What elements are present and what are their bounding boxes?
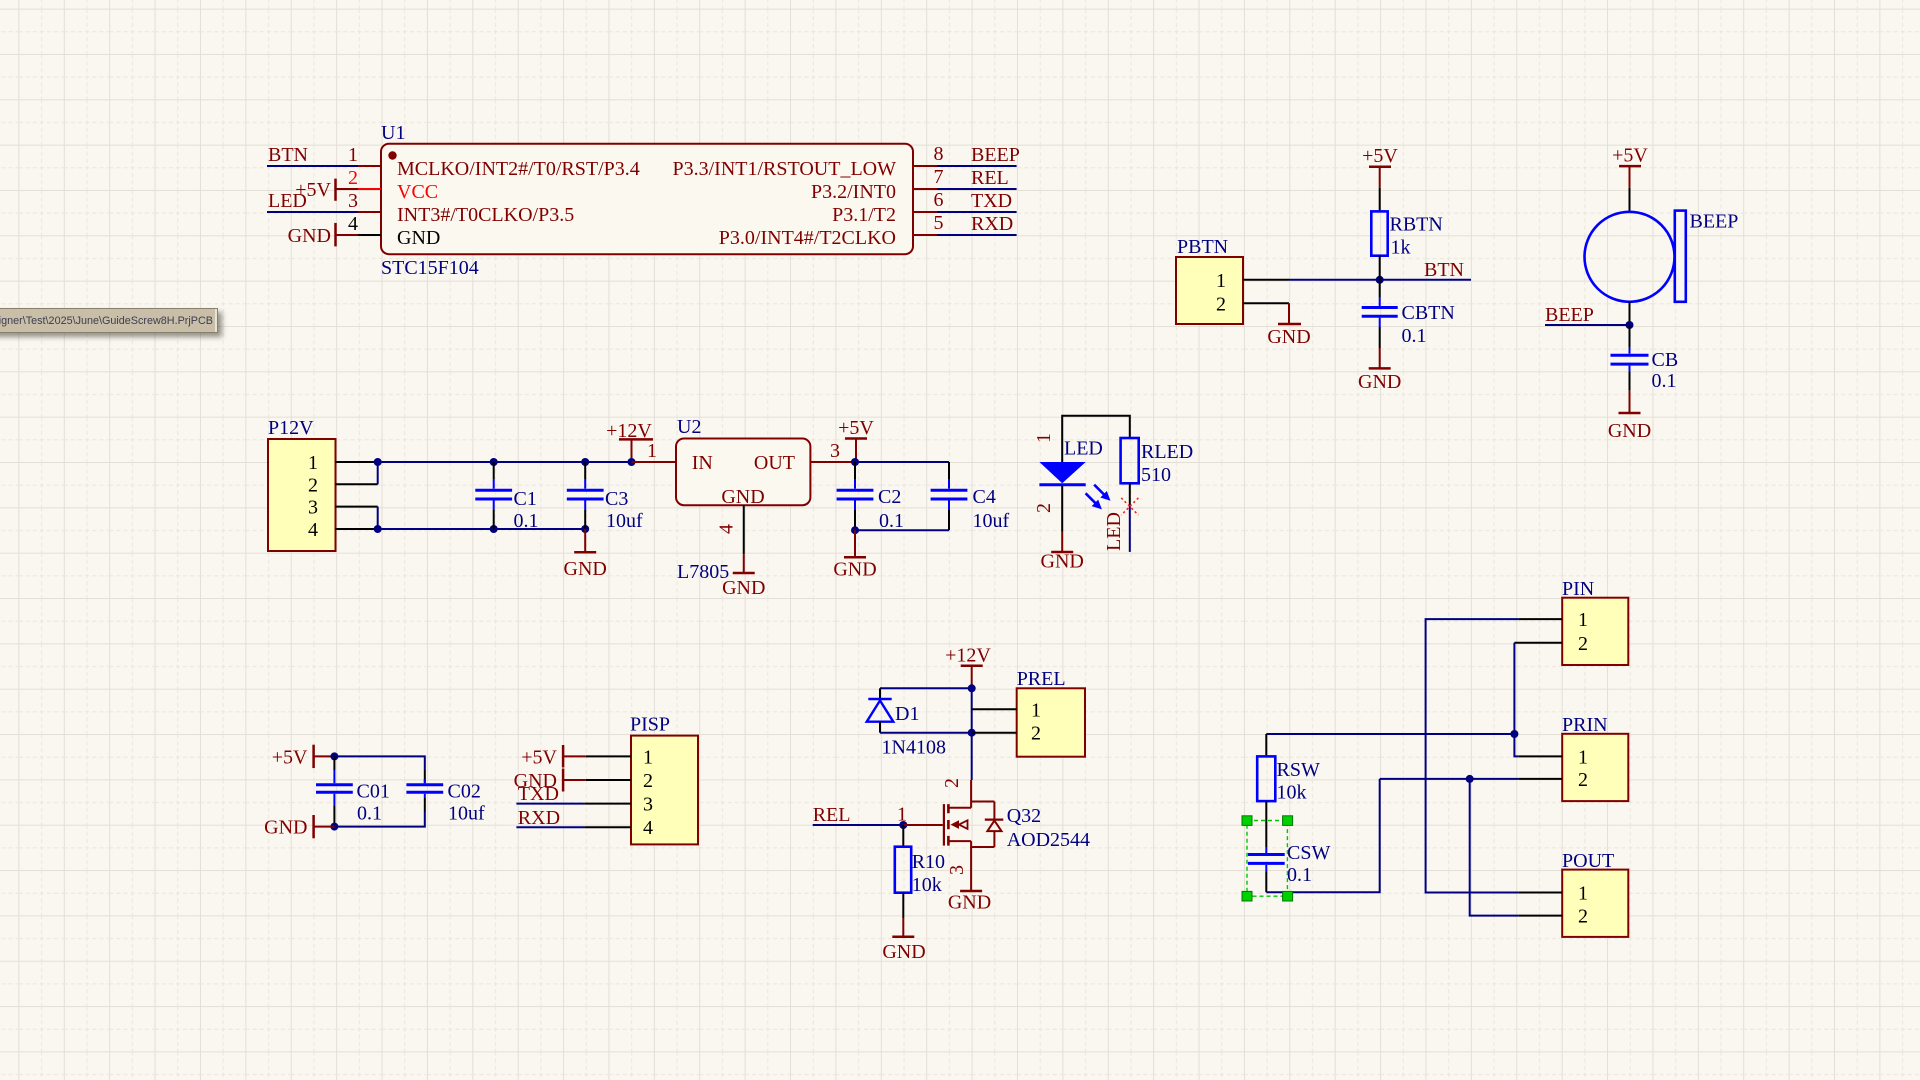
svg-text:BEEP: BEEP — [1545, 304, 1594, 326]
junction REL node — [899, 821, 907, 829]
capacitor C1 — [475, 462, 538, 532]
pin 3 U1 — [358, 211, 381, 213]
svg-text:2: 2 — [1578, 633, 1588, 655]
svg-text:1: 1 — [348, 144, 358, 166]
svg-text:PBTN: PBTN — [1177, 236, 1228, 258]
svg-text:+5V: +5V — [1612, 145, 1648, 167]
svg-text:6: 6 — [934, 189, 944, 211]
wire speaker to BEEP node — [1629, 302, 1631, 325]
wire RSW rail corner down — [1265, 734, 1267, 756]
junction BEEP node — [1626, 321, 1634, 329]
svg-text:TXD: TXD — [971, 190, 1012, 212]
svg-text:CSW: CSW — [1287, 842, 1330, 864]
pin 7 U1 — [913, 188, 937, 190]
pin 2 U1 VCC — [358, 188, 381, 190]
capacitor C2 — [837, 462, 904, 532]
svg-text:AOD2544: AOD2544 — [1007, 829, 1090, 851]
wire PIN pin2 down — [1513, 643, 1515, 734]
svg-text:RSW: RSW — [1277, 759, 1320, 781]
pin 1 POUT — [1518, 892, 1562, 894]
svg-text:1N4108: 1N4108 — [882, 737, 946, 759]
power port +5V at U1 pin2 — [295, 179, 358, 201]
capacitor C4 — [931, 462, 1010, 532]
regulator U2 L7805 — [676, 416, 810, 583]
wire +12V node down to coil node — [971, 688, 973, 732]
connector PRIN — [1562, 714, 1628, 801]
wire TXD from U1 pin6 — [937, 211, 1017, 213]
wire +5V node to C4 — [855, 461, 949, 463]
svg-text:C02: C02 — [448, 781, 481, 803]
pin 3 P12V — [336, 506, 378, 508]
pin 5 U1 — [913, 234, 937, 236]
svg-text:0.1: 0.1 — [1402, 325, 1427, 347]
svg-text:+5V: +5V — [272, 747, 308, 769]
junction C01 top — [330, 752, 338, 760]
pin 2 PBTN — [1243, 302, 1289, 304]
svg-text:510: 510 — [1141, 464, 1171, 486]
svg-text:P3.1/T2: P3.1/T2 — [832, 204, 896, 226]
svg-text:BEEP: BEEP — [971, 144, 1020, 166]
wire RSW top rail — [1266, 733, 1514, 735]
transistor Q32 AOD2544 — [944, 780, 1090, 851]
svg-text:4: 4 — [643, 817, 653, 839]
wire BEEP node to CB — [1629, 325, 1631, 347]
svg-text:2: 2 — [1031, 723, 1041, 745]
svg-text:OUT: OUT — [754, 452, 795, 474]
pin 1 PISP — [586, 755, 631, 757]
tooltip — [0, 308, 218, 333]
pin 3 U2 — [810, 461, 855, 463]
power port +12V above PREL — [945, 645, 991, 689]
speaker BEEP circle — [1585, 211, 1739, 302]
svg-text:U1: U1 — [381, 122, 405, 144]
pin 6 U1 — [913, 211, 937, 213]
svg-text:+5V: +5V — [838, 417, 874, 439]
wire ground bottom rail — [378, 528, 586, 530]
wire CSW bottom to PRIN pin2 riser — [1266, 779, 1379, 892]
wire +5V rail to C02 — [334, 756, 424, 770]
svg-text:P3.3/INT1/RSTOUT_LOW: P3.3/INT1/RSTOUT_LOW — [672, 158, 896, 180]
wire REL from U1 pin7 — [937, 188, 1017, 190]
pin 1 PIN — [1518, 618, 1562, 620]
pin 1 U1 — [358, 165, 381, 167]
svg-text:P3.2/INT0: P3.2/INT0 — [811, 181, 896, 203]
power port +5V at C01 — [272, 745, 335, 769]
svg-text:4: 4 — [308, 519, 318, 541]
pin 1 U2 — [632, 461, 677, 463]
ground port below LED — [1041, 532, 1084, 573]
junction RSW top net — [1510, 730, 1518, 738]
wire CB to ground — [1629, 372, 1631, 391]
pin 1 PREL — [972, 708, 1017, 710]
pin 2 P12V — [336, 483, 378, 485]
pin 2 PREL — [972, 732, 1017, 734]
wire BTN net — [1289, 279, 1471, 281]
wire BTN node to CBTN — [1379, 280, 1381, 297]
svg-text:CBTN: CBTN — [1402, 302, 1455, 324]
power port +12V — [606, 420, 653, 462]
connector PREL — [1017, 668, 1085, 757]
wire +5V to RBTN — [1379, 188, 1381, 212]
svg-text:2: 2 — [941, 778, 963, 788]
junction +5V node — [851, 458, 859, 466]
svg-text:D1: D1 — [895, 703, 919, 725]
svg-text:PRIN: PRIN — [1562, 714, 1608, 736]
svg-text:GND: GND — [721, 486, 764, 508]
svg-text:2: 2 — [1033, 503, 1055, 513]
svg-text:GND: GND — [1358, 371, 1401, 393]
wire coil node to Q32 drain — [971, 733, 973, 780]
svg-text:TXD: TXD — [518, 783, 559, 805]
svg-text:1: 1 — [1578, 609, 1588, 631]
svg-text:GND: GND — [722, 577, 765, 599]
resistor RSW — [1257, 756, 1320, 803]
wire LED net dangling — [1129, 506, 1131, 552]
svg-text:MCLKO/INT2#/T0/RST/P3.4: MCLKO/INT2#/T0/RST/P3.4 — [397, 158, 640, 180]
wire BEEP from U1 pin8 — [937, 165, 1017, 167]
svg-text:GND: GND — [948, 892, 991, 914]
svg-text:U2: U2 — [677, 416, 701, 438]
resistor RBTN — [1371, 211, 1443, 258]
wire LED cathode down — [1061, 486, 1063, 532]
junction BTN node — [1376, 276, 1384, 284]
connector P12V — [268, 417, 336, 551]
svg-text:RXD: RXD — [971, 213, 1013, 235]
connector POUT — [1562, 850, 1628, 937]
svg-text:GND: GND — [288, 225, 331, 247]
pin 1 PBTN — [1243, 279, 1289, 281]
pin 1 PRIN — [1518, 755, 1562, 757]
svg-text:0.1: 0.1 — [879, 510, 904, 532]
no-connect cross marker — [1121, 498, 1138, 515]
svg-text:2: 2 — [348, 167, 358, 189]
svg-text:1: 1 — [1578, 883, 1588, 905]
svg-text:3: 3 — [348, 190, 358, 212]
ground port below R10 — [882, 918, 925, 963]
svg-text:GND: GND — [833, 559, 876, 581]
svg-text:3: 3 — [946, 865, 968, 875]
svg-text:10uf: 10uf — [973, 510, 1010, 532]
ground port below C2 — [833, 530, 876, 580]
wire LED top rail — [1062, 416, 1130, 462]
pin D1 anode — [879, 722, 881, 733]
LED D LED — [1039, 438, 1110, 510]
ground port at C01 — [264, 815, 334, 839]
pin 1 P12V — [336, 461, 378, 463]
svg-text:C2: C2 — [878, 486, 901, 508]
connector PBTN — [1176, 236, 1243, 324]
wire +5V to speaker — [1629, 188, 1631, 212]
diode D1 1N4108 — [867, 699, 946, 759]
pin 2 POUT — [1518, 915, 1562, 917]
wire RXD from U1 pin5 — [937, 234, 1017, 236]
svg-text:4: 4 — [716, 524, 738, 534]
svg-text:0.1: 0.1 — [357, 803, 382, 825]
svg-text:CB: CB — [1652, 349, 1679, 371]
svg-text:RXD: RXD — [518, 807, 560, 829]
ground port below Q32 — [948, 868, 991, 914]
svg-text:1: 1 — [647, 440, 657, 462]
svg-text:1: 1 — [897, 804, 907, 826]
svg-text:PIN: PIN — [1562, 578, 1594, 600]
svg-text:3: 3 — [643, 794, 653, 816]
wire RSW to CSW — [1265, 801, 1267, 847]
wire BTN to U1 pin1 — [267, 165, 358, 167]
connector PIN — [1562, 578, 1628, 665]
wire PRIN pin2 net — [1380, 778, 1519, 780]
svg-text:3: 3 — [308, 497, 318, 519]
pin 1 Q32 gate — [903, 824, 943, 826]
svg-text:C1: C1 — [514, 488, 537, 510]
junction C3 bottom — [581, 525, 589, 533]
wire C4 bottom to C2 bottom — [855, 529, 949, 531]
ground port below CBTN — [1358, 348, 1401, 393]
svg-text:IN: IN — [692, 452, 713, 474]
capacitor C3 — [567, 462, 643, 532]
svg-text:Q32: Q32 — [1007, 805, 1041, 827]
ground port below U2 — [722, 554, 765, 599]
svg-text:2: 2 — [1216, 294, 1226, 316]
svg-text:BTN: BTN — [268, 144, 308, 166]
svg-text:8: 8 — [934, 143, 944, 165]
svg-text:+5V: +5V — [521, 746, 557, 768]
ground port at U1 pin4 — [288, 223, 358, 247]
svg-text:2: 2 — [1578, 906, 1588, 928]
wire CBTN to ground — [1379, 327, 1381, 348]
ground port at PISP pin2 — [514, 769, 586, 793]
resistor RLED — [1121, 438, 1194, 486]
wire junction to PRIN pin1 — [1514, 734, 1518, 756]
svg-text:10uf: 10uf — [448, 803, 485, 825]
power port +5V above RBTN — [1362, 145, 1398, 188]
svg-text:1: 1 — [643, 746, 653, 768]
ground port at PBTN pin2 — [1267, 303, 1310, 348]
junction P12V pin4 — [374, 525, 382, 533]
wire +12V top rail — [378, 461, 632, 463]
wire C02 bottom rail — [334, 812, 424, 827]
pin 2 PIN — [1514, 642, 1562, 644]
wire TXD net — [516, 803, 584, 805]
junction U2 pin1 — [628, 458, 636, 466]
capacitor CB — [1611, 347, 1679, 392]
svg-text:STC15F104: STC15F104 — [381, 257, 479, 279]
pin 4 PISP — [584, 826, 631, 828]
svg-text:R10: R10 — [912, 851, 945, 873]
svg-text:POUT: POUT — [1562, 850, 1614, 872]
svg-text:GND: GND — [1608, 420, 1651, 442]
svg-text:1: 1 — [1031, 699, 1041, 721]
svg-text:+5V: +5V — [1362, 145, 1398, 167]
wire RXD net — [516, 826, 584, 828]
svg-text:GND: GND — [1267, 326, 1310, 348]
svg-text:P3.0/INT4#/T2CLKO: P3.0/INT4#/T2CLKO — [719, 227, 896, 249]
svg-text:PREL: PREL — [1017, 668, 1066, 690]
junction PRIN pin2 node — [1466, 775, 1474, 783]
svg-text:5: 5 — [934, 212, 944, 234]
wire BEEP net — [1545, 324, 1630, 326]
wire RBTN to BTN node — [1379, 256, 1381, 280]
resistor R10 — [895, 847, 945, 896]
svg-text:LED: LED — [268, 190, 307, 212]
pin 2 PISP — [586, 779, 631, 781]
pin 8 U1 — [913, 165, 937, 167]
svg-text:0.1: 0.1 — [1652, 370, 1677, 392]
svg-text:2: 2 — [1578, 769, 1588, 791]
svg-text:LED: LED — [1064, 438, 1103, 460]
junction coil node — [968, 729, 976, 737]
svg-text:1: 1 — [308, 452, 318, 474]
wire D1 anode to REL coil node — [880, 732, 972, 734]
svg-text:3: 3 — [830, 440, 840, 462]
svg-text:2: 2 — [308, 474, 318, 496]
pin D1 cathode — [879, 688, 881, 699]
wire PIN pin1 to POUT pin1 — [1426, 619, 1519, 892]
wire RLED bottom — [1129, 483, 1131, 506]
svg-text:P12V: P12V — [268, 417, 314, 439]
svg-text:1: 1 — [1216, 270, 1226, 292]
svg-text:2: 2 — [643, 770, 653, 792]
wire P12V pin3 to pin4 — [377, 507, 379, 529]
wire +12V node to D1 — [880, 687, 972, 689]
svg-text:C3: C3 — [605, 488, 628, 510]
selection box CSW — [1242, 816, 1293, 901]
svg-text:10uf: 10uf — [606, 510, 643, 532]
wire CSW bottom stub — [1265, 872, 1267, 892]
wire P12V pin2 to pin1 — [377, 462, 379, 484]
pin 4 U1 GND — [358, 234, 381, 236]
svg-text:+12V: +12V — [945, 645, 991, 667]
junction C01 bottom — [330, 823, 338, 831]
svg-text:BEEP: BEEP — [1690, 211, 1739, 233]
svg-text:GND: GND — [397, 227, 440, 249]
svg-text:GND: GND — [1041, 551, 1084, 573]
junction +12V node — [968, 684, 976, 692]
power port +5V above speaker — [1612, 145, 1648, 188]
wire R10 to ground — [902, 893, 904, 918]
power port +5V at U2 out — [838, 417, 874, 462]
junction C2 bottom — [851, 526, 859, 534]
wire REL net — [813, 824, 904, 826]
svg-text:0.1: 0.1 — [1287, 864, 1312, 886]
wire junction down to POUT pin2 — [1470, 779, 1519, 916]
svg-text:REL: REL — [971, 167, 1009, 189]
connector PISP — [630, 714, 698, 845]
pin 4 P12V — [336, 528, 378, 530]
op-amp U1 body STC15F104 — [381, 144, 913, 255]
svg-text:LED: LED — [1103, 512, 1125, 551]
svg-text:GND: GND — [882, 941, 925, 963]
wire Q32 source to ground — [970, 847, 972, 868]
svg-text:1k: 1k — [1391, 237, 1411, 259]
svg-text:C4: C4 — [973, 486, 996, 508]
pin 3 PISP — [584, 803, 631, 805]
junction C3 top — [581, 458, 589, 466]
capacitor CBTN — [1362, 297, 1455, 347]
svg-text:0.1: 0.1 — [514, 510, 539, 532]
pin 4 U2 — [743, 505, 745, 554]
wire LED to U1 pin3 — [267, 211, 358, 213]
svg-text:GND: GND — [264, 817, 307, 839]
pin 2 PRIN — [1518, 778, 1562, 780]
svg-text:10k: 10k — [912, 874, 942, 896]
capacitor C01 — [316, 756, 390, 826]
capacitor CSW selected — [1248, 842, 1331, 886]
svg-text:4: 4 — [348, 213, 358, 235]
capacitor C02 — [406, 770, 485, 825]
svg-text:REL: REL — [813, 804, 851, 826]
junction C1 top — [490, 458, 498, 466]
ground port below CB — [1608, 391, 1651, 442]
svg-text:VCC: VCC — [397, 181, 438, 203]
svg-text:C01: C01 — [357, 781, 390, 803]
svg-text:10k: 10k — [1277, 782, 1307, 804]
svg-text:INT3#/T0CLKO/P3.5: INT3#/T0CLKO/P3.5 — [397, 204, 574, 226]
svg-text:BTN: BTN — [1424, 259, 1464, 281]
wire REL node to R10 — [902, 825, 904, 847]
svg-text:1: 1 — [1578, 746, 1588, 768]
svg-text:GND: GND — [564, 558, 607, 580]
junction C1 bottom — [490, 525, 498, 533]
ground port below C3 — [564, 529, 607, 580]
power port +5V at PISP pin1 — [521, 745, 586, 768]
junction P12V pin1 — [374, 458, 382, 466]
svg-text:RLED: RLED — [1141, 441, 1193, 463]
svg-text:RBTN: RBTN — [1390, 214, 1443, 236]
svg-text:PISP: PISP — [630, 714, 670, 736]
svg-text:7: 7 — [934, 166, 944, 188]
svg-text:1: 1 — [1033, 433, 1055, 443]
